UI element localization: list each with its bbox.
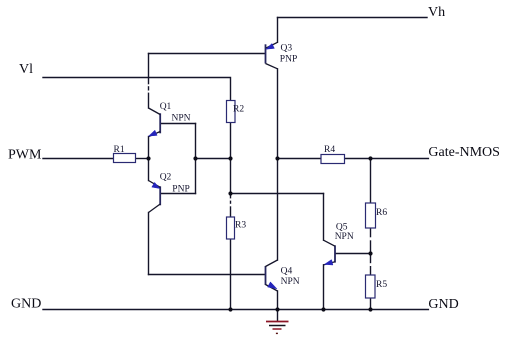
- svg-text:PWM: PWM: [8, 148, 42, 163]
- wire nick below R6: [370, 237, 372, 240]
- wire node B horizontal to Q5 collector: [231, 193, 324, 195]
- wire Vh drop to Q3 emitter: [277, 18, 279, 43]
- wire Q2 collector down: [148, 213, 150, 275]
- svg-text:NPN: NPN: [281, 277, 300, 287]
- wire R2 bottom to R3 top: [230, 123, 232, 218]
- wire Vh rail top: [278, 17, 428, 19]
- wire base tie vertical Q1-Q2: [195, 124, 197, 194]
- svg-text:Vl: Vl: [19, 62, 33, 77]
- svg-text:Q4: Q4: [281, 267, 293, 277]
- wire nick on R2R3 chain below node B: [230, 198, 232, 200]
- node R1 / emitters junction: [146, 156, 150, 160]
- svg-text:R3: R3: [235, 221, 246, 231]
- resistor R4: [321, 155, 345, 164]
- wire R3 bottom to GND rail: [230, 239, 232, 310]
- wire Q3 collector to Q4 collector vertical: [277, 69, 279, 260]
- svg-text:GND: GND: [11, 297, 41, 312]
- svg-text:R5: R5: [376, 280, 387, 290]
- wire Q2 collector to Q4 base: [149, 274, 266, 276]
- wire Q5 base lead: [336, 253, 371, 255]
- transistor Q5 NPN: [324, 240, 336, 265]
- wire R5 bottom to GND rail: [370, 298, 372, 310]
- wire R6 bottom to R5 top: [370, 228, 372, 275]
- node base tie junction: [193, 156, 197, 160]
- resistor R6: [366, 203, 376, 228]
- svg-text:NPN: NPN: [172, 114, 191, 124]
- node R6-R5 / Q5 base junction: [368, 251, 372, 255]
- wire Q5 collector vertical: [323, 194, 325, 241]
- svg-text:Q3: Q3: [281, 43, 293, 53]
- svg-text:GND: GND: [428, 297, 458, 312]
- wire gate node down to R6: [370, 159, 372, 204]
- wire Q4 emitter to ground: [277, 291, 279, 321]
- svg-text:Q2: Q2: [160, 173, 172, 183]
- svg-text:PNP: PNP: [172, 184, 189, 194]
- node R2-R3 / PWM junction: [228, 156, 232, 160]
- svg-text:R2: R2: [233, 105, 244, 115]
- svg-text:Q1: Q1: [160, 102, 172, 112]
- node gate line / Q3-Q4 junction: [275, 156, 279, 160]
- wire GND rail: [43, 309, 428, 311]
- node gate line / R6 junction: [368, 156, 372, 160]
- wire Vl rail to R2 top: [43, 78, 231, 101]
- wire Q2 base lead: [160, 193, 195, 195]
- svg-text:R4: R4: [324, 145, 335, 155]
- svg-text:R6: R6: [376, 208, 387, 218]
- svg-text:Gate-NMOS: Gate-NMOS: [428, 145, 500, 160]
- transistor Q2 PNP: [149, 181, 161, 213]
- resistor R2: [227, 101, 236, 123]
- wire Q1 collector to Q3 base: [149, 53, 266, 55]
- wire Q5 emitter down to GND rail: [323, 265, 325, 310]
- wire gate node to R4: [278, 158, 322, 160]
- svg-text:R1: R1: [114, 145, 125, 155]
- node GND / Q5 emitter junction: [321, 307, 325, 311]
- wire R1 to emitter node: [136, 158, 149, 160]
- node B R2R3/Q5-collector junction: [228, 191, 232, 195]
- wire Q1/Q2 emitter vertical: [148, 137, 150, 181]
- transistor Q3 PNP: [266, 42, 278, 69]
- node GND / Q4 emitter junction: [275, 307, 279, 311]
- resistor R1: [114, 154, 136, 163]
- ground earth symbol: [266, 322, 289, 335]
- wire PWM lead to R1: [43, 158, 114, 160]
- svg-text:Vh: Vh: [428, 5, 445, 20]
- wire nick below Q5 base node: [370, 263, 372, 266]
- wire Q1 base lead: [160, 123, 195, 125]
- resistor R5: [366, 275, 376, 298]
- node GND / R3 junction: [228, 307, 232, 311]
- resistor R3: [227, 217, 235, 239]
- wire R4 to Gate-NMOS: [345, 158, 429, 160]
- wire nick on Q1 collector below Vl crossing: [148, 84, 150, 86]
- wire Q1 collector up: [148, 54, 150, 109]
- transistor Q4 NPN: [266, 260, 278, 291]
- node GND / R5 junction: [368, 307, 372, 311]
- wire base node to R2/R3 node: [196, 158, 231, 160]
- svg-text:NPN: NPN: [335, 232, 354, 242]
- svg-text:PNP: PNP: [280, 55, 297, 65]
- transistor Q1 NPN: [149, 108, 161, 137]
